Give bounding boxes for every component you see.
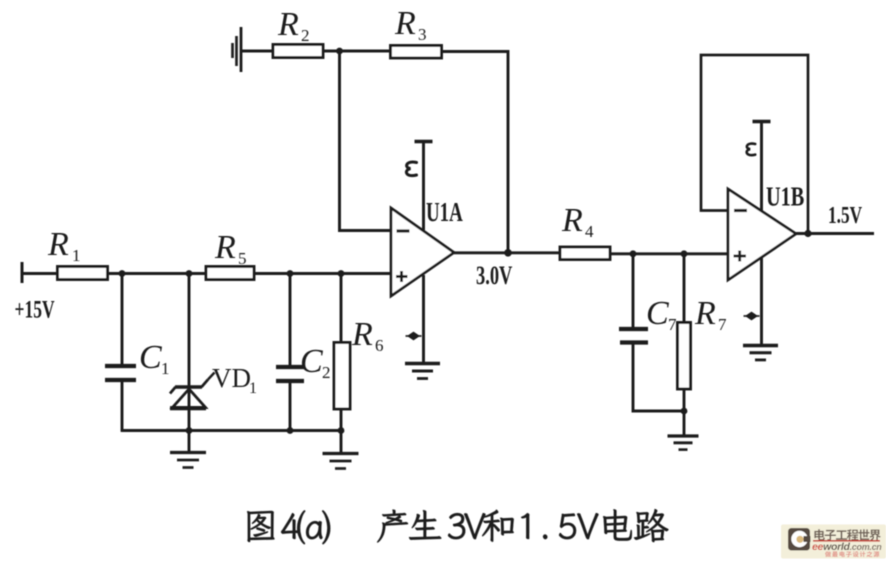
svg-text:R: R	[277, 6, 299, 43]
ground GND4 below U1A	[405, 364, 440, 379]
ground GND2 below VD1	[170, 453, 206, 468]
svg-text:R: R	[351, 316, 373, 353]
capacitor C2	[276, 343, 331, 382]
node E: R6 tap	[338, 270, 345, 277]
resistor R5	[206, 229, 254, 280]
svg-text:4: 4	[585, 222, 594, 241]
svg-text:VD: VD	[212, 363, 251, 393]
svg-text:C: C	[646, 295, 669, 332]
caption: 图4(a) 产生3V和1.5V电路	[247, 509, 669, 544]
ground GND5 below R7	[668, 436, 699, 450]
op-amp U1A	[391, 198, 463, 296]
svg-text:U1B: U1B	[766, 183, 804, 212]
svg-text:1: 1	[72, 246, 81, 265]
svg-text:1.5V: 1.5V	[828, 201, 862, 229]
svg-text:7: 7	[718, 315, 727, 334]
watermark: eeworld logo	[781, 525, 886, 559]
wire: R5 to U1A non-inverting input	[254, 272, 391, 275]
svg-text:2: 2	[322, 363, 331, 382]
svg-text:7: 7	[668, 315, 677, 334]
wire: U1A output	[454, 251, 560, 254]
node B: C1 tap	[119, 270, 126, 277]
wire: node H down to R7	[683, 254, 686, 323]
wire: R6 to ground bus	[340, 409, 343, 452]
U1A power pin 3	[406, 142, 432, 231]
wire: U1B feedback loop	[701, 55, 808, 233]
svg-text:3: 3	[418, 25, 427, 44]
wire: C1 to ground bus	[121, 382, 124, 431]
op-amp U1B	[728, 183, 804, 280]
wire: node C down through VD1 to ground	[188, 274, 191, 453]
node I: C7/R7 bottom junction	[681, 408, 688, 415]
svg-text:U1A: U1A	[426, 198, 463, 228]
svg-text:C: C	[300, 343, 323, 380]
svg-text:3.0V: 3.0V	[476, 261, 513, 290]
ground G1 (signal ground left of R2, rotated)	[233, 27, 242, 72]
U1B power pin	[747, 122, 771, 212]
wire: R1 to R5	[108, 272, 207, 275]
wire: node G down to C7	[632, 254, 635, 328]
resistor R6	[334, 316, 384, 409]
node F: output / R3 feedback junction	[504, 249, 512, 257]
svg-text:2: 2	[301, 26, 310, 45]
capacitor C7	[619, 295, 677, 343]
wire: R2 to R3	[323, 50, 391, 53]
wire: U1B output	[796, 232, 874, 235]
wire: R3 right end down to U1A output node	[442, 52, 509, 253]
zener diode VD1	[170, 363, 257, 408]
wire: node E down to R6	[340, 274, 343, 344]
wire: G1 to R2	[242, 50, 274, 53]
svg-text:6: 6	[375, 336, 384, 355]
wire: input to R1	[22, 272, 58, 275]
wire: node D down to C2	[289, 274, 292, 367]
svg-text:R: R	[694, 295, 716, 332]
resistor R3	[391, 5, 442, 58]
wire: R7 to ground	[683, 389, 686, 435]
node G: C7 tap	[630, 250, 637, 257]
junction: bus at VD1	[186, 427, 193, 434]
wire: node B down to C1	[121, 274, 124, 366]
svg-text:R: R	[561, 202, 583, 239]
wire: C2 to ground bus	[289, 383, 292, 431]
svg-text:eeworld.com.cn: eeworld.com.cn	[812, 541, 882, 553]
ground GND3 below R6	[323, 454, 359, 469]
ground bus wire	[121, 429, 343, 432]
junction: bus at C2	[287, 427, 294, 434]
U1A ground pin 4	[406, 275, 424, 363]
svg-text:1: 1	[249, 380, 257, 397]
svg-text:R: R	[214, 229, 236, 266]
wire: C7 bottom to R7 bottom junction	[633, 345, 684, 412]
resistor R7	[678, 295, 728, 389]
U1B ground pin	[744, 257, 762, 345]
svg-text:R: R	[47, 226, 69, 263]
junction: bus at R6	[338, 427, 345, 434]
node H: R7 tap	[681, 250, 688, 257]
node A: R2/R3 junction	[336, 48, 343, 55]
wire: node A down to U1A inverting input	[340, 51, 392, 231]
node C: VD1 tap	[186, 270, 193, 277]
terminal: +15V input tick	[21, 262, 24, 283]
node J: output/feedback junction	[804, 230, 811, 237]
resistor R4	[560, 202, 610, 260]
svg-text:R: R	[394, 5, 416, 42]
ground GND6 below U1B	[743, 346, 778, 360]
svg-text:+15V: +15V	[15, 295, 55, 323]
node D: C2 tap	[287, 270, 294, 277]
svg-text:C: C	[139, 339, 162, 376]
wire: R4 to U1B non-inverting input	[610, 252, 728, 255]
resistor R1	[47, 226, 108, 280]
svg-text:1: 1	[161, 359, 170, 378]
capacitor C1	[105, 339, 170, 380]
svg-text:5: 5	[238, 249, 247, 268]
resistor R2	[273, 6, 323, 58]
